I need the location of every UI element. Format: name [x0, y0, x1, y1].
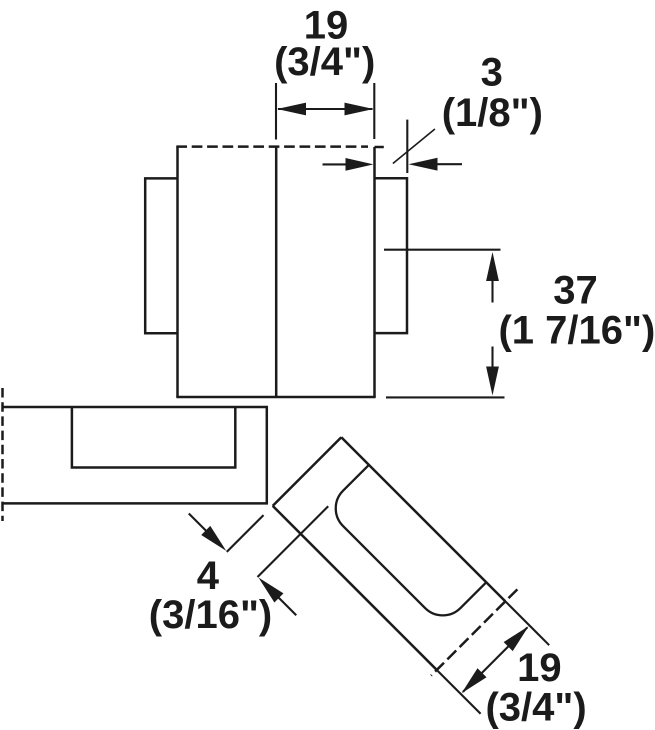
extension of outer face	[504, 600, 549, 645]
extension of inner face	[436, 669, 481, 714]
dimension line	[278, 108, 373, 110]
left block	[145, 178, 177, 333]
door cut end (dashed)	[431, 589, 517, 675]
arrow pointing left	[437, 163, 463, 165]
leader line	[393, 129, 435, 164]
svg-text:(1/8"): (1/8")	[442, 91, 543, 135]
svg-text:3: 3	[481, 50, 503, 94]
svg-text:(3/4"): (3/4")	[274, 40, 375, 84]
dimension 3 (1/8")	[323, 120, 463, 173]
extension line top	[384, 249, 501, 251]
arrowhead right	[345, 103, 374, 116]
panel outline	[3, 407, 267, 503]
arrow toward front face	[189, 513, 207, 531]
arrow pointing right	[323, 163, 348, 165]
dimension 4 (3/16")	[184, 440, 367, 623]
hinge arm recess	[72, 407, 235, 468]
arrowhead down	[457, 668, 487, 698]
svg-text:(3/4"): (3/4")	[485, 686, 586, 730]
door right edge	[373, 147, 376, 397]
extension of slot edge	[258, 506, 329, 577]
door top-right corner stub	[375, 146, 384, 149]
dimension line	[463, 628, 527, 692]
door inner face	[273, 506, 437, 670]
bottom-left panel	[3, 388, 267, 521]
svg-text:4: 4	[197, 554, 220, 598]
arrow toward slot edge	[278, 597, 296, 615]
dimension 37 (1 7/16")	[384, 250, 505, 398]
extension of door front face	[227, 515, 264, 552]
door front edge	[273, 437, 342, 506]
door left edge	[176, 147, 179, 397]
cabinet top-view outline (upper shape)	[145, 147, 407, 397]
arrowhead up	[504, 622, 534, 652]
dimension 19 (3/4") bottom	[435, 600, 549, 714]
svg-text:(3/16"): (3/16")	[149, 593, 272, 637]
extension line left	[275, 83, 277, 140]
extension line	[406, 120, 408, 173]
hinge slot	[325, 465, 486, 626]
svg-text:19: 19	[517, 646, 562, 690]
extension line bottom	[386, 396, 505, 398]
lower arrow (down)	[491, 347, 493, 368]
door outer face	[341, 437, 505, 601]
extension line right	[373, 83, 375, 139]
svg-text:37: 37	[553, 268, 598, 312]
panel dashed end line	[1, 388, 4, 521]
dimension 19 (3/4") top	[276, 83, 374, 140]
door centre line	[275, 147, 278, 397]
door bottom edge	[176, 396, 375, 399]
upper arrow (up)	[491, 281, 493, 303]
svg-text:(1 7/16"): (1 7/16")	[498, 309, 655, 353]
right block	[375, 178, 408, 333]
arrowhead left	[277, 103, 306, 116]
angled door (45°)	[184, 387, 561, 730]
door top edge (dashed)	[176, 145, 368, 148]
